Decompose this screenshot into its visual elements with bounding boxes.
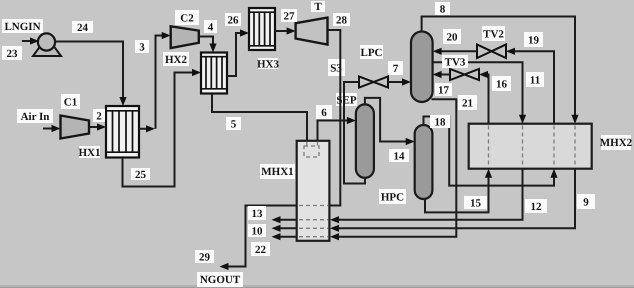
wire stream 22 out of MHX1 left [272,233,297,240]
svg-text:HX3: HX3 [257,59,280,71]
wire stream 13 / 29 MHX1 to NGOUT [220,206,297,271]
label MHX2 [600,135,633,150]
compressor C2 [171,26,199,48]
wire stream 13 out of MHX1 left [272,216,297,223]
svg-text:8: 8 [440,4,446,16]
wire stream 19 MHX2 top to TV2 [506,48,554,124]
svg-text:10: 10 [252,226,264,238]
label 18 [430,115,450,129]
label 4 [204,20,217,34]
wire stream 27 HX3 to turbine [275,27,296,34]
svg-text:7: 7 [393,63,399,75]
label LPC [360,45,383,59]
label 17 [435,83,452,97]
wire stream 4 C2 to HX2 top [199,37,217,53]
label C1 [61,94,80,109]
label 25 [131,168,150,181]
wire stream 8 LPC top to MHX2 [422,17,579,124]
svg-text:5: 5 [231,119,237,131]
label 2 [93,109,105,123]
separator SEP vessel [356,104,374,177]
label T [311,1,325,13]
label 26 [225,13,241,27]
label HX1 [79,146,101,159]
label LNGIN [2,19,43,33]
svg-text:NGOUT: NGOUT [200,274,241,286]
svg-text:MHX2: MHX2 [600,137,633,149]
svg-text:TV3: TV3 [445,57,466,69]
compressor C1 [61,116,90,139]
svg-text:12: 12 [531,201,543,213]
valve V1 (LPC feed) [359,77,388,88]
svg-text:2: 2 [96,111,102,123]
label 8 [435,2,450,16]
svg-text:HX1: HX1 [79,147,101,159]
node SEP label (under lines) [336,93,357,107]
label 14 [389,149,409,163]
svg-text:23: 23 [7,48,19,60]
MHX1 internal dashed coil [299,142,328,237]
label 27 [281,9,297,23]
svg-text:27: 27 [284,11,296,23]
svg-text:24: 24 [77,22,89,34]
valve TV3 [450,69,479,80]
svg-text:20: 20 [447,32,459,44]
heat exchanger HX1 [106,106,139,158]
label 22 [251,242,270,256]
svg-text:4: 4 [208,22,214,34]
svg-text:C2: C2 [180,13,194,25]
label 28 [333,13,350,27]
wire stream 24 pump to HX1 top [55,42,127,107]
label HX2 [163,52,189,66]
label TV3 [442,55,468,69]
valve TV2 [477,45,506,59]
heat exchanger MHX1 [297,141,330,241]
svg-text:Air In: Air In [21,111,50,123]
label 24 [72,21,93,34]
label 12 [525,199,547,213]
svg-text:28: 28 [336,15,348,27]
wire SEP bottom to valve V1 [344,82,365,184]
heat exchanger HX2 [201,53,227,94]
svg-text:C1: C1 [64,97,77,109]
label HPC [379,189,406,204]
wire stream 10 out of MHX1 left [272,225,297,232]
svg-text:21: 21 [462,98,473,110]
wire stream 12 MHX2 bottom to MHX1 [330,169,523,224]
wire stream 21 LPC to MHX1 [330,99,456,240]
svg-text:13: 13 [252,208,264,220]
pump P1 (LNG feed pump) [33,33,61,56]
svg-text:19: 19 [528,35,540,47]
svg-text:29: 29 [199,252,211,264]
wire stream 2 C1 to HX1 [89,123,106,130]
label 23 [2,46,22,60]
svg-text:3: 3 [139,42,145,54]
svg-text:11: 11 [530,75,540,87]
label Air In [17,109,53,123]
label 13 [248,206,266,220]
label 19 [524,32,543,47]
label 11 [526,72,544,87]
label 20 [443,29,461,44]
label 21 [458,95,477,110]
column HPC vessel [415,125,433,199]
svg-text:HPC: HPC [381,192,404,204]
svg-text:MHX1: MHX1 [261,166,293,178]
label 15 [464,196,487,210]
svg-text:TV2: TV2 [483,29,504,41]
wire stream 15 HPC bottom to MHX2 bottom [425,169,492,213]
column LPC vessel [411,32,433,103]
label 7 [388,61,403,75]
svg-text:T: T [314,1,322,13]
label MHX1 [260,164,295,179]
svg-text:25: 25 [135,169,147,181]
svg-text:22: 22 [255,244,267,256]
wire stream 28 / S3 turbine to MHX1 [328,30,341,206]
label TV2 [482,26,505,41]
label C2 [175,10,199,25]
wire stream 18 HPC top to MHX2 bottom [424,117,558,186]
svg-text:26: 26 [228,15,240,27]
label 6 [316,105,332,119]
svg-text:14: 14 [394,151,406,163]
wire Air In into C1 [43,125,61,132]
svg-text:15: 15 [470,198,482,210]
svg-text:16: 16 [496,79,508,91]
wire stream 5 HX2 bottom to MHX1 top [212,94,307,141]
wire stream 20 TV2 to LPC [433,48,477,55]
wire stream 11 LPC to MHX2 top [433,62,526,123]
wire stream 23 into pump [22,37,39,44]
svg-text:LNGIN: LNGIN [4,21,40,33]
wire stream 3 HX1 to C2 [139,32,171,132]
node S3 label (under lines) [328,59,345,76]
label 29 [195,250,214,264]
svg-text:18: 18 [435,117,447,129]
svg-text:6: 6 [321,107,327,119]
wire stream 17 TV3 to LPC [433,71,450,78]
wire stream 9 MHX2 bottom to MHX1 [330,169,575,232]
heat exchanger HX3 [249,8,275,50]
wire stream 26 HX2 to HX3 [227,29,249,76]
heat exchanger MHX2 [469,124,592,169]
wire stream 6 MHX1 top to SEP [318,117,356,140]
label 10 [248,224,266,238]
label 3 [135,40,149,54]
label 9 [577,194,595,209]
label HX3 [257,58,280,71]
svg-text:9: 9 [583,197,589,209]
label 5 [226,117,241,131]
svg-text:HX2: HX2 [165,54,188,66]
wire stream 25 HX1 bottom to HX2 side [123,69,202,187]
svg-text:LPC: LPC [361,47,383,59]
label NGOUT [197,272,243,287]
MHX2 internal dashed passes [489,126,576,168]
wire stream 16 MHX2 top to TV3 [479,71,489,124]
turbine T [296,18,328,45]
label 16 [492,76,511,91]
wire stream 7 valve to LPC [388,78,411,85]
wire stream 14 SEP top to HPC [365,98,415,145]
svg-text:17: 17 [438,85,450,97]
